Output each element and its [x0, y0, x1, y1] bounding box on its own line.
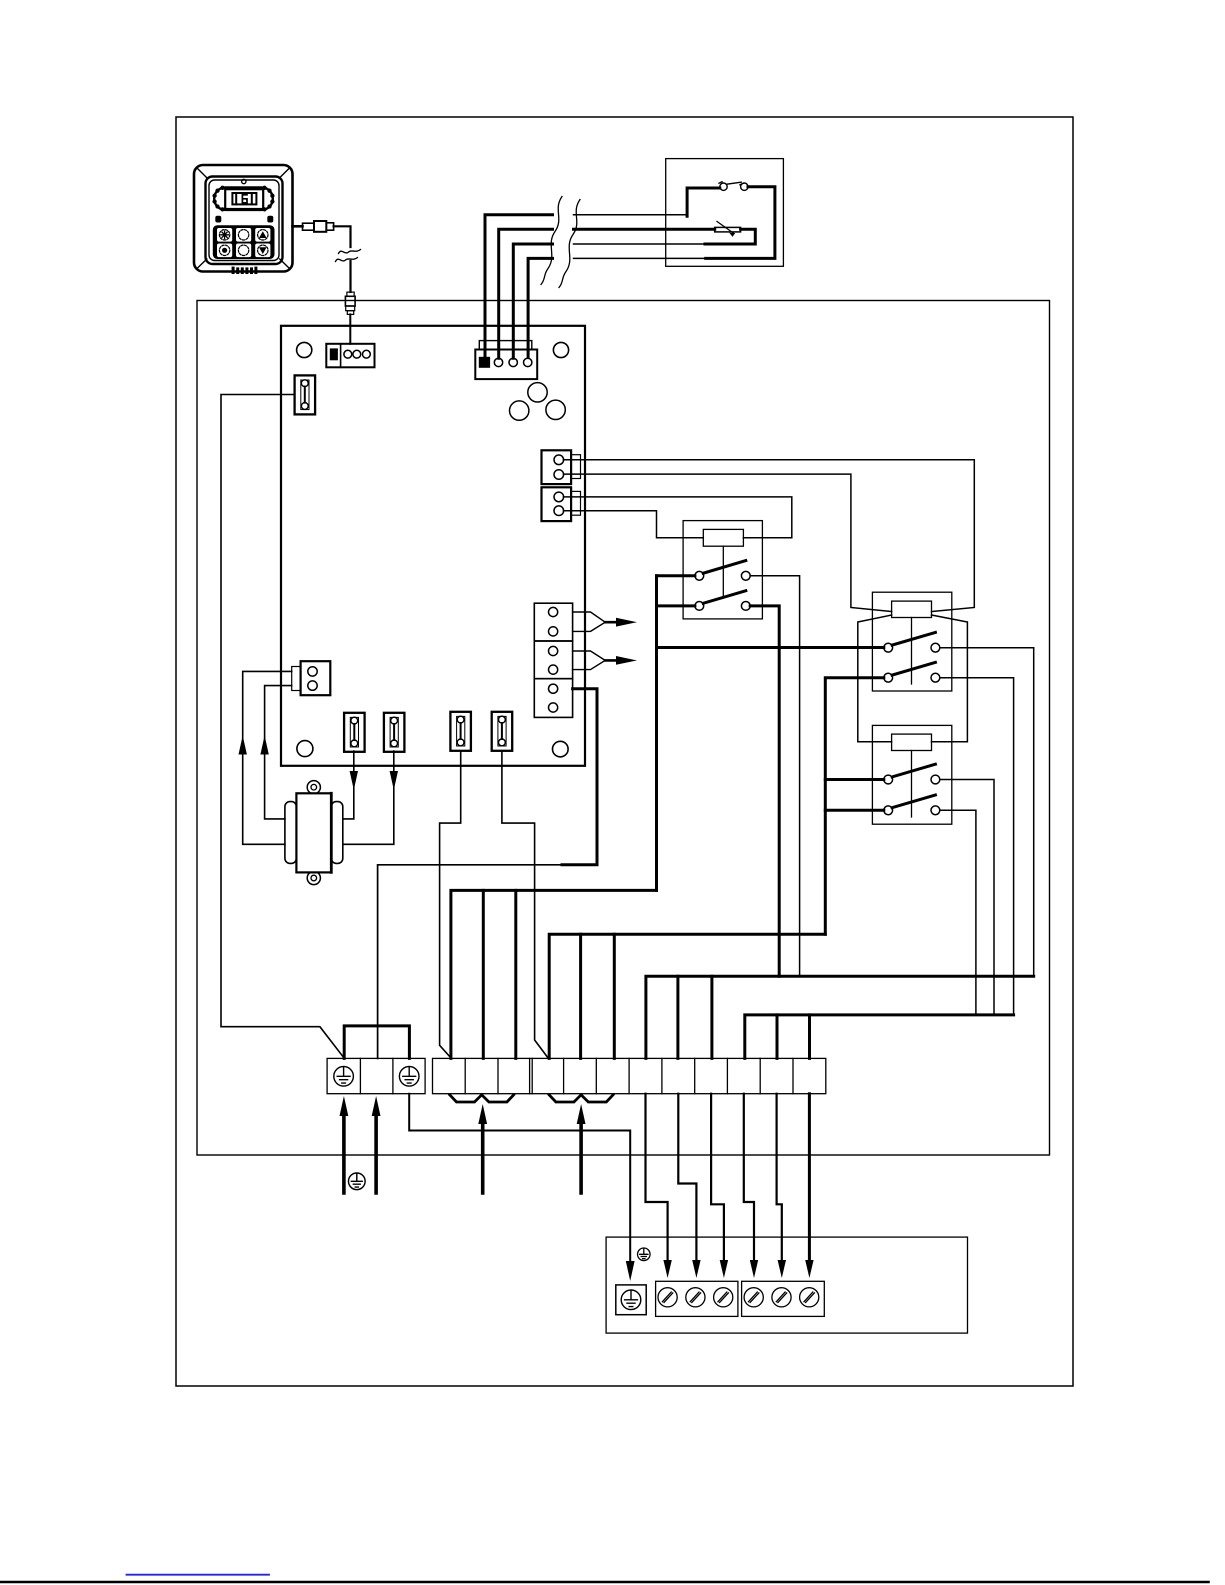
fuse F5: [492, 712, 513, 751]
earth symbol mains input: [348, 1173, 365, 1190]
brace group2 under strip: [549, 1095, 613, 1102]
6-pin connector block: [534, 603, 572, 717]
wire K1 lower-left contact stub: [657, 604, 695, 607]
wire transformer secondary pin2: [265, 686, 292, 819]
wire strip cell7 to heater screw1: [646, 1094, 668, 1260]
relay K3 armature line: [911, 751, 913, 818]
wire K2 coil to K3 coil parallel left: [858, 615, 892, 742]
wire K2 coil to K3 coil parallel right: [932, 615, 968, 742]
mains terminal block: [327, 1058, 425, 1093]
cable arrow to pump1: [573, 612, 637, 631]
wire K1 upper-left contact stub: [657, 574, 695, 577]
earth terminal square: [616, 1285, 646, 1315]
earth symbol mains cell3: [399, 1067, 419, 1087]
heater terminal box: [606, 1237, 967, 1333]
arrow down into earth square: [626, 1261, 635, 1281]
wire K1 upper-right contact to bus C: [750, 576, 799, 977]
heater terminal strip 2: [742, 1281, 825, 1316]
wire sensor w1 (board pin1 up): [485, 215, 553, 357]
arrow down on F2 wire: [350, 771, 358, 790]
bus B drop cell6: [613, 934, 616, 1058]
bus B drop cell5: [579, 934, 582, 1058]
fuse F2: [344, 713, 365, 752]
wire thermistor loop: [705, 229, 755, 244]
panel cable connector: [293, 221, 334, 232]
sensor connector J2 on board: [475, 341, 537, 380]
topside control panel: [194, 165, 293, 274]
relay K2 armature line: [911, 618, 913, 685]
wire conn B pin1 to K1 coil right: [564, 497, 792, 538]
mains input arrow L: [342, 1112, 346, 1193]
panel connector J1 on board: [326, 344, 374, 368]
wire pressure switch loop: [687, 187, 775, 259]
transformer T1: [285, 781, 343, 885]
bus C drop cell9: [710, 976, 713, 1058]
wire conn A pin1 to K2 coil right: [564, 460, 975, 612]
wire fuse F1 to mains earth cell: [221, 395, 344, 1058]
thermistor: [715, 222, 741, 237]
bus D drop cell11: [776, 1015, 779, 1059]
wire strip cell11 to heater screw5: [777, 1094, 782, 1260]
wire sensor w4 (board pin4 up): [528, 258, 552, 356]
wire relay K3 lower-right contact down: [940, 810, 976, 1015]
wire K1 bus to K2 upper-left contact: [657, 646, 884, 649]
arrow up on secondary pin2 wire: [260, 736, 268, 755]
arrow up on secondary pin1 wire: [239, 736, 247, 755]
relay K2 coil: [892, 601, 932, 617]
relay K2 contacts: [884, 643, 940, 682]
mounting hole top-left: [297, 342, 312, 357]
relay K1 contacts: [695, 571, 750, 610]
relay K1 contact blades: [703, 561, 746, 604]
heater terminal strip 1: [656, 1281, 738, 1316]
wire busD right end to relay K2 lower-right contact: [940, 678, 1014, 1015]
wire K1 left contact bus down to bus A: [655, 576, 658, 891]
connector A (2-pin, upper right): [542, 450, 581, 484]
bus D drop cell12: [808, 1015, 811, 1059]
wire line feed to mains cell2 (thin part): [378, 865, 562, 1059]
wire transformer secondary pin1: [243, 671, 292, 844]
brace group1 under strip: [450, 1095, 514, 1102]
mains input arrow N: [374, 1112, 378, 1193]
relay K2 contact blades: [892, 632, 935, 675]
fuse F1: [295, 375, 316, 414]
relay K1 coil: [703, 529, 743, 546]
wire sensor w2 after break to thermistor: [574, 228, 715, 231]
earth symbol mains cell1: [334, 1067, 354, 1087]
relay pad circles on board: [528, 383, 547, 402]
relay K3 coil: [892, 734, 932, 750]
bus A (strip cells 1-3): [451, 890, 657, 1058]
relay K1 armature line: [722, 546, 724, 596]
arrow into brace group2: [579, 1122, 583, 1193]
connector B (2-pin, lower): [542, 487, 581, 521]
bus C drop cell8: [676, 976, 679, 1058]
mounting hole bottom-left: [297, 741, 313, 757]
bus A drop cell3: [514, 890, 517, 1058]
panel cable plug: [345, 292, 355, 314]
wire F5 to terminal strip cell4: [502, 751, 548, 1058]
transformer secondary connector (2-pin bottom-left): [292, 661, 331, 695]
footer rule: [0, 1581, 1209, 1584]
wire strip cell12 to heater screw6: [808, 1094, 811, 1260]
arrow into brace group1: [481, 1122, 485, 1193]
earth symbol small (box label): [638, 1248, 651, 1261]
wire panel cable lower: [349, 261, 351, 292]
cable break squiggle: [336, 250, 361, 262]
main terminal strip: [433, 1058, 826, 1093]
wire busC right end to relay K2 upper-right contact: [940, 648, 1034, 977]
wire strip cell8 to heater screw2: [678, 1094, 696, 1260]
wire K1 lower-right contact to bus C: [750, 606, 779, 976]
wire strip cell9 to heater screw3: [711, 1094, 724, 1260]
bus B (strip cells 4-6): [549, 934, 825, 1058]
wire conn A pin2 to K2 coil left: [564, 474, 892, 611]
wire plug to board connector: [349, 314, 351, 343]
wire K3 upper-left contact stub: [825, 778, 884, 781]
wire sensor w3 after break: [574, 243, 706, 245]
mounting hole bottom-right: [553, 741, 569, 757]
bus D (strip cells 10-12): [745, 1015, 1014, 1059]
sensor box (pressure switch + thermistor): [666, 159, 784, 267]
fuse F4: [450, 712, 471, 751]
wire conn B pin2 to K1 coil left: [564, 511, 704, 538]
wire strip cell10 to heater screw4: [744, 1094, 754, 1260]
wire F2 to transformer primary: [343, 751, 354, 819]
wire relay K3 upper-right contact down: [940, 780, 994, 1015]
screw terminals: [658, 1288, 677, 1307]
sensor cable break squiggle: [541, 197, 580, 288]
arrow down on F3 wire: [390, 771, 398, 790]
wire sensor w3 (board pin3 up): [513, 244, 552, 358]
wire sensor w4 after break: [574, 257, 706, 259]
bus A drop cell2: [482, 890, 485, 1058]
enclosure box (spa pack): [197, 301, 1050, 1156]
wire earth cell3 to heater box: [409, 1094, 630, 1262]
wire sensor w2 (board pin2 up): [499, 229, 553, 358]
cable arrow to pump2: [573, 651, 637, 670]
fuse F3: [384, 713, 405, 752]
earth symbol in square: [621, 1290, 641, 1310]
footer hyperlink underline: [127, 1574, 270, 1576]
wire panel cable: [334, 226, 351, 247]
wire sensor w1 after break: [574, 214, 688, 216]
relay K3 contact blades: [892, 764, 935, 808]
control board outline: [281, 326, 585, 766]
earth bridge staple cell1-cell3: [344, 1026, 409, 1059]
page border frame: [176, 117, 1073, 1386]
pressure switch: [719, 182, 748, 191]
relay K2 box: [872, 592, 951, 691]
wire line feed board to mains cell2: [562, 689, 597, 865]
bus C (strip cells 7-9): [646, 976, 1034, 1058]
relay K3 box: [872, 725, 951, 824]
relay K3 contacts: [884, 775, 940, 815]
wire F4 to terminal strip cell1: [440, 751, 461, 1058]
mounting hole top-right: [553, 342, 568, 357]
wire F3 to transformer primary: [343, 751, 394, 844]
wire K2 lower-left contact to bus B: [825, 678, 884, 935]
relay K1 box: [683, 521, 762, 619]
wire K3 lower-left contact stub: [825, 809, 884, 812]
